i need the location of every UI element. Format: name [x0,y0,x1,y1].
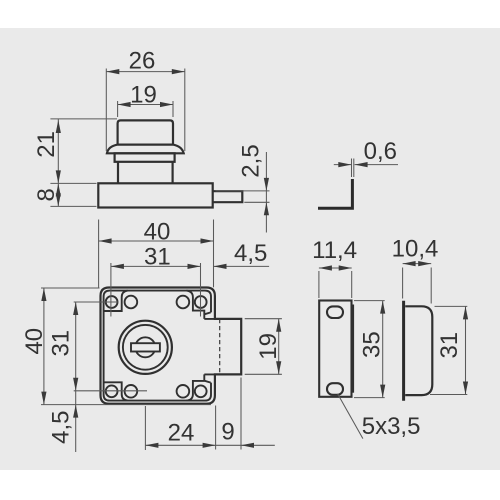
dim 2,5 extension line bottom [244,201,269,203]
dim 0,6 dimension line right part [355,164,398,166]
dim 8 extension line bottom [50,205,96,207]
screw hole top-right corner [195,296,207,308]
sheet-metal angle bracket (0,6 thick) [318,179,352,208]
svg-text:8: 8 [33,188,60,201]
dim 19 extension line left [117,101,119,117]
key cylinder core circle [135,337,155,357]
arrowheads dim 24 [145,443,158,448]
front view: case outer outline with bolt tab [101,288,242,404]
dim 19 right dimension line [278,319,280,375]
dim 40 top extension line right [213,220,215,288]
side view of strike: mounting flange plate [402,301,405,401]
dim 21/8 dimension line [57,119,59,206]
side view: lock base plate [98,183,212,207]
svg-text:19: 19 [130,82,157,109]
dim 21 extension line top [50,118,117,120]
dim 19 dimension line [118,104,173,106]
svg-text:26: 26 [129,48,156,75]
arrowheads dim 19 [118,102,131,107]
dim 10,4 extension line right [430,268,432,304]
svg-text:9: 9 [221,419,234,446]
svg-text:10,4: 10,4 [392,236,439,263]
svg-text:0,6: 0,6 [364,138,397,165]
keyhole boss inner circle [123,325,168,370]
svg-text:31: 31 [144,244,171,271]
side view: key cylinder [118,120,173,144]
svg-text:24: 24 [168,419,195,446]
arrowheads dim 19 right [276,319,281,332]
dim 19 extension line right [172,101,174,117]
screw hole top-left corner [106,296,118,308]
svg-text:31: 31 [47,330,74,357]
dim 40 top dimension line [99,240,214,242]
dim 31 top extension line left [110,263,112,317]
dim 26 extension line left [105,69,107,152]
dim 31 right extension line top [435,305,468,307]
side view: cylinder neck [118,162,173,184]
dim 10,4 extension line left [402,268,404,299]
arrowheads dim 26 [106,69,119,74]
dim 40 left extension line top [41,287,100,289]
dim 26 dimension line [106,71,185,73]
dim 2,5 dimension line [265,152,267,233]
dim 31 left extension line top (hole centerline) [74,301,118,303]
dim 21/8 shared extension line [50,182,96,184]
dim 4,5 top-right tail line [214,265,270,267]
svg-text:40: 40 [144,218,171,245]
arrowhead dim 9 [241,443,254,448]
svg-text:21: 21 [33,131,60,158]
strike plate bent lip edge [352,305,354,393]
dim 26 extension line right [184,69,186,152]
arrowheads dim 31 top [111,264,124,269]
svg-text:35: 35 [359,331,386,358]
dim 31 top dimension line [111,265,201,267]
strike plate slot hole bottom (5x3,5) [327,383,343,395]
dim 40 top extension line left [98,220,100,288]
arrowheads dim 40 top [99,238,112,243]
strike plate slot hole top (5x3,5) [327,306,343,318]
screw hole bottom-right inner [177,385,190,398]
dim 35 extension line bottom [354,397,385,399]
dim 24/9 dimension line [145,444,241,446]
arrowhead dim 4,5 left [73,405,78,418]
arrowheads dim 10,4 [403,261,416,266]
svg-text:5x3,5: 5x3,5 [362,413,421,440]
svg-text:31: 31 [436,332,463,359]
arrowheads dim 11,4 [319,265,332,270]
dim 40 left dimension line [43,288,45,405]
leader line 5x3,5 [338,394,363,439]
svg-text:4,5: 4,5 [48,411,75,444]
dim 40 left extension line bottom [41,404,211,406]
dim 10,4 dimension line [403,263,432,265]
dim 35 dimension line [382,301,384,398]
side view of strike: box body [405,306,432,395]
svg-text:2,5: 2,5 [238,144,265,177]
side view: collar ring [115,153,175,162]
front view: corner pocket top-left [104,291,128,311]
arrowheads dim 2,5 [264,178,269,191]
dim 19 right extension line bottom [245,373,282,375]
dim 11,4 extension line left [318,271,320,298]
svg-text:19: 19 [255,333,282,360]
dim 0,6 dimension line left part [334,164,352,166]
side view: flange [107,145,184,154]
dim 11,4 dimension line [319,267,352,269]
arrowheads dim 0,6 [338,162,351,167]
arrowheads dim 35 [380,301,385,314]
keyhole boss outer circle [119,321,172,374]
dim 31 right extension line bottom [430,394,467,396]
screw hole top-right inner [177,296,190,309]
arrowhead dim 4,5 top-right [214,264,227,269]
svg-text:40: 40 [21,328,48,355]
dim 31 top extension line right [200,263,202,317]
dim 9 tail line [241,444,275,446]
dim 35 extension line top [354,300,385,302]
dim 24 extension line left (key axis) [144,406,146,450]
dim 2,5 extension line top [216,190,270,192]
arrowheads dim 21 and 8 [56,120,61,133]
arrowheads dim 40 left [41,288,46,301]
front view: case inner outline [104,291,211,401]
screw hole bottom-left corner [106,385,118,397]
key slot bar [131,343,160,351]
screw hole bottom-left inner [125,385,138,398]
front view: corner pocket bottom-right with bolt slot [186,374,215,400]
dim 31 right dimension line [465,306,467,394]
strike plate outline [319,301,351,397]
arrowheads dim 31 left [73,302,78,315]
dim 0,6 extension line left [351,159,353,178]
screw hole bottom-right corner [195,385,207,397]
side view: latch bolt [213,191,243,202]
screw hole top-left inner [125,296,138,309]
arrowheads dim 31 right [463,306,468,319]
dim 9 extension line right [240,378,242,450]
svg-text:11,4: 11,4 [312,237,357,264]
dim 31 left extension line bottom (hole centerline) [74,390,147,392]
hidden edge of bolt (dashed) [219,319,221,374]
dim 24/9 shared extension line [215,406,217,450]
front view: corner pocket bottom-left [104,382,128,400]
dim 11,4 extension line right [351,271,353,298]
dim 31/4,5 left dimension line [75,302,77,452]
front view: corner pocket top-right with bolt slot [186,291,215,319]
svg-text:4,5: 4,5 [234,240,267,267]
dim 0,6 extension line right [353,159,355,178]
dim 19 right extension line top [245,318,282,320]
